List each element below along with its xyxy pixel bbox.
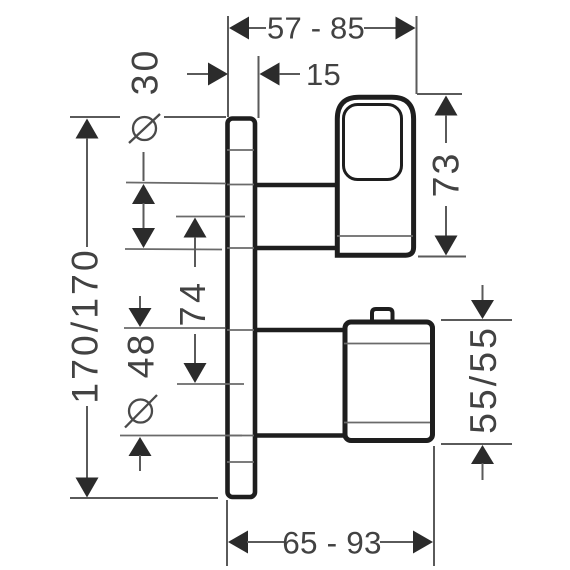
dia48 symbol circle [129,400,152,423]
handle stem bottom line [255,246,337,251]
svg-text:74: 74 [172,279,213,326]
ext line 74 bottom [177,383,244,385]
plate inner line bottom [227,461,254,463]
dim 65-93 right arrow [413,531,433,554]
dia48 leader bottom [139,455,141,471]
svg-text:15: 15 [306,57,341,92]
dim 57-85 line [248,27,266,29]
knob (thermostat handle) outline [345,322,433,441]
dim 65-93 line right [380,541,415,543]
svg-text:30: 30 [124,48,166,96]
dia48 symbol slash [125,395,157,428]
knob stem top line [255,328,345,333]
dim 73 shaft lower [445,206,447,236]
lever handle outline [337,97,413,255]
dim 73 bottom arrow [435,236,458,256]
lever handle bottom band line [337,235,413,237]
svg-text:170/170: 170/170 [64,247,106,404]
dim 65-93 left arrow [228,531,248,554]
dim 65-93 line left [247,541,284,543]
ext line dia48 bottom (merges with stem) [120,435,242,437]
plate crossing line at handle stem top [227,184,254,186]
ext line 74 top [176,216,245,218]
handle stem top line [255,183,337,188]
dia48 top arrow (points down) [129,308,152,327]
dim 15 line left [187,73,209,75]
dia30 shaft [143,203,145,229]
dim 15 line right [279,73,300,75]
dim 170/170 bottom arrow [76,478,99,498]
dim 55 leader bottom [482,463,484,480]
ext line 15 right (plate right) [258,56,260,118]
dim 73 shaft upper [445,115,447,143]
ext line dia48 top [124,327,225,329]
dia30 top arrow [132,184,155,204]
dim 73 top arrow [435,96,458,116]
plate crossing line at knob stem bottom [227,435,254,437]
knob stem bottom line [255,433,345,438]
knob safety tab [372,309,393,321]
ext line dia30 bottom [125,248,222,251]
svg-text:57 - 85: 57 - 85 [267,11,365,46]
svg-text:48: 48 [120,333,162,379]
ext line dia30 top [126,183,226,184]
plate crossing line at knob stem top [227,329,254,331]
dim 55 bottom arrow (points up) [471,445,494,464]
dia48 leader top [139,296,141,310]
svg-text:65 - 93: 65 - 93 [282,525,381,561]
dim 57-85 right arrow [396,17,416,40]
dim 74 shaft upper [194,237,196,267]
dim 74 shaft lower [194,334,196,363]
ext line 170 bottom [70,497,218,499]
dim 74 bottom arrow [184,363,207,383]
dia30 bottom arrow [132,228,155,248]
ext line 65-93 left [226,500,228,566]
ext line 55 top [441,319,512,321]
plate inner line top [227,149,254,151]
ext line 55 bottom [441,443,512,445]
svg-text:55/55: 55/55 [462,325,504,434]
knob bottom band line [344,422,430,424]
dia30 symbol circle [133,117,156,140]
lever handle hole [344,105,402,180]
plate crossing line at handle stem bottom [227,247,254,249]
ext line 57-85 left (plate left) [227,16,229,117]
ext line 65-93 right [433,446,435,566]
dim 57-85 left arrow [229,17,249,40]
dim 74 top arrow [184,218,207,238]
dim 55 leader top [482,285,484,301]
dim 55 top arrow (points down) [471,300,494,319]
dim 170/170 shaft upper [86,138,88,247]
dia30 symbol slash [129,114,160,143]
ext line 73 bottom [418,256,466,258]
dia48 bottom arrow (points up) [129,437,152,456]
knob top band line [344,343,430,345]
svg-text:73: 73 [425,152,467,198]
dim 15 left arrow (points right at plate left) [208,63,228,86]
ext line 170 top [70,116,120,118]
dim 15 right arrow (points left at plate right) [260,63,280,86]
dim 170/170 shaft lower [86,406,88,478]
ext line 57-85 right (handle right) [416,16,418,94]
dia30 leader [143,152,145,181]
dim 170/170 top arrow [76,119,99,139]
wall plate (escutcheon, side view) [228,119,256,498]
ext line 73 top [417,93,462,95]
